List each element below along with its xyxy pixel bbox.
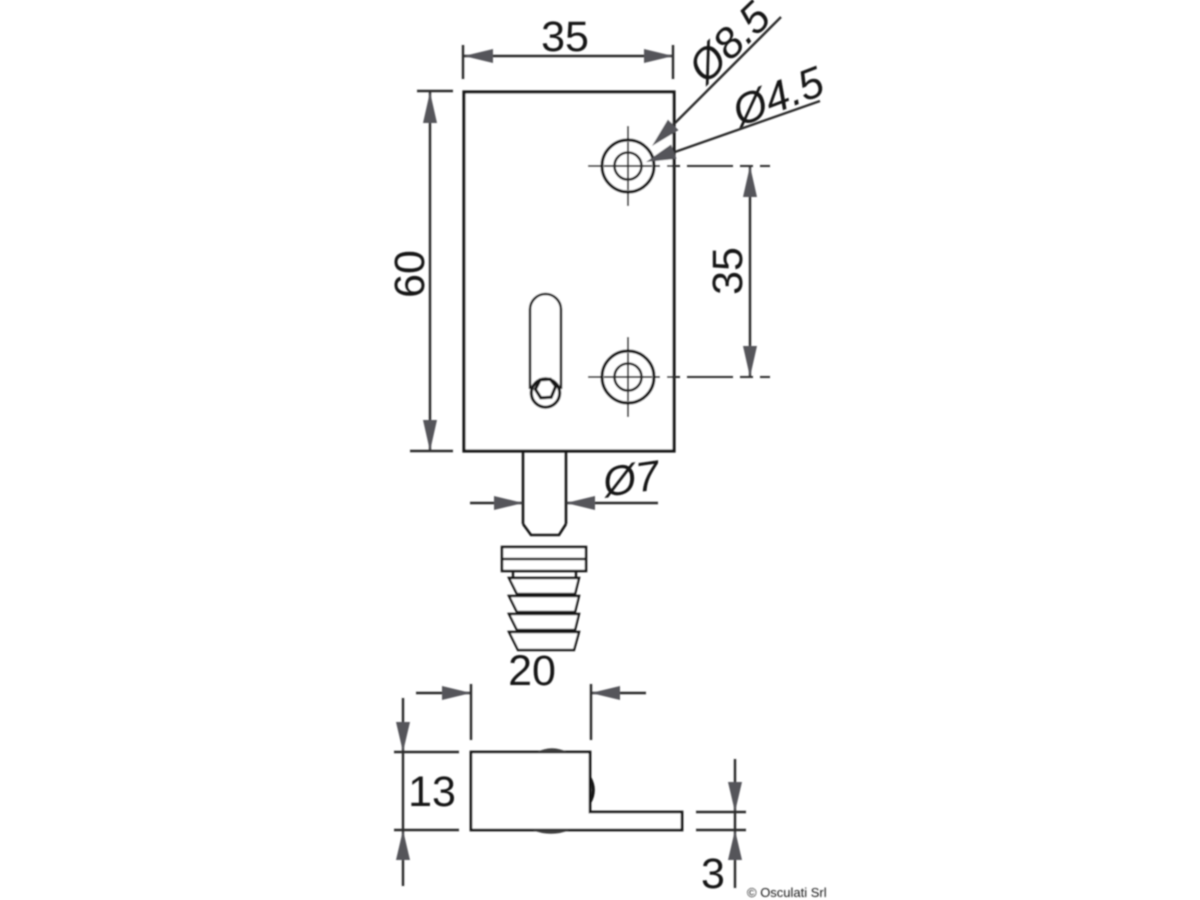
plug: rib 2 xyxy=(509,596,579,612)
plug: rib 1 xyxy=(509,578,579,594)
slot with screw: barrel ring xyxy=(531,379,559,407)
plug: rib 4 xyxy=(509,632,579,650)
svg-text:13: 13 xyxy=(408,768,456,816)
bracket side view: bottom screw tip bump xyxy=(532,830,570,834)
dimension d7: left line xyxy=(470,502,523,504)
dimension 20: left tail line xyxy=(416,692,471,694)
dimension 35 top: right arrowhead xyxy=(644,49,673,63)
dimension 13: top tick xyxy=(394,751,459,753)
plug: neck xyxy=(512,571,514,579)
dimension 3: top arrowhead (points down) xyxy=(728,782,742,812)
bracket side view: top screw tip bump xyxy=(537,748,567,752)
svg-text:© Osculati Srl: © Osculati Srl xyxy=(747,885,827,900)
bracket side view: right edge bump xyxy=(590,778,593,802)
dimension 35 top: extension tick right xyxy=(672,45,674,79)
dimension 60 left: top tick xyxy=(417,90,453,92)
dimension 35 right: top arrowhead xyxy=(743,166,757,197)
plug: rib 3 xyxy=(509,614,579,630)
dimension 20: right tail line xyxy=(591,692,646,694)
dimension 20: left extension line xyxy=(470,684,472,740)
hole H1 top: inner circle (d4.5) xyxy=(615,153,642,180)
stem below plate: chamfered tip xyxy=(523,524,566,535)
dimension 20: right extension line xyxy=(590,684,592,740)
slot with screw: slot outline (open bottom) xyxy=(530,294,561,389)
dimension 3: dimension line xyxy=(734,759,736,888)
hole H2 bottom: inner circle xyxy=(615,364,642,391)
hole H1 top: horizontal centerline xyxy=(588,165,770,167)
dimension 60 left: bottom tick xyxy=(410,450,453,452)
dimension 13: dimension line xyxy=(402,698,404,886)
dimension d7: left arrowhead xyxy=(494,496,523,510)
dimension 35 right: dimension line xyxy=(749,166,751,377)
dimension 60 left: dimension line xyxy=(429,92,431,451)
dimension 13: bottom arrowhead (points up) xyxy=(396,830,410,860)
dimension 60 left: top arrowhead xyxy=(423,92,437,123)
svg-text:20: 20 xyxy=(508,647,556,695)
dimension d7: right arrowhead xyxy=(566,496,595,510)
dimension d7: right line xyxy=(566,502,658,504)
hole H1 top: crosshair xyxy=(604,142,652,190)
hole H2 bottom: outer circle xyxy=(602,351,654,403)
dimension 13: top arrowhead (points down) xyxy=(396,722,410,752)
leader d8.5: arrowhead xyxy=(652,120,679,147)
dimension 3: bottom tick xyxy=(696,829,746,831)
plate front view outline xyxy=(464,92,674,451)
dimension 35 top: dimension line xyxy=(464,55,673,57)
dimension 3: top tick xyxy=(696,811,746,813)
stem below plate: left side xyxy=(522,451,525,524)
svg-text:60: 60 xyxy=(386,250,434,298)
hole H1 top: vertical centerline xyxy=(627,126,629,207)
dimension 35 top: left arrowhead xyxy=(464,49,493,63)
leader d4.5: arrowhead xyxy=(646,145,677,163)
slot with screw: hex socket xyxy=(535,379,555,398)
svg-text:3: 3 xyxy=(701,850,725,898)
dimension 35 right: bottom arrowhead xyxy=(743,346,757,377)
dimension 20: left arrowhead xyxy=(442,686,471,700)
dimension 3: bottom arrowhead (points up) xyxy=(728,830,742,860)
plug: flange xyxy=(502,547,586,571)
dimension 13: bottom tick xyxy=(394,829,459,831)
stem below plate: right side xyxy=(565,451,568,524)
dimension 35 top: extension tick left xyxy=(462,45,464,79)
hole H2 bottom: crosshair xyxy=(604,353,652,401)
svg-text:Ø4.5: Ø4.5 xyxy=(724,57,831,136)
hole H1 top: outer circle (d8.5) xyxy=(602,140,654,192)
dimension 20: right arrowhead xyxy=(591,686,620,700)
bracket side view: L-shaped body xyxy=(471,752,682,830)
hole H2 bottom: horizontal centerline xyxy=(588,376,770,378)
plug: flange divider xyxy=(502,558,586,560)
svg-text:35: 35 xyxy=(541,13,589,61)
svg-text:Ø7: Ø7 xyxy=(598,451,664,506)
hole H2 bottom: vertical centerline xyxy=(627,337,629,418)
leader d4.5: line xyxy=(672,101,820,153)
svg-text:35: 35 xyxy=(704,247,752,295)
dimension 60 left: bottom arrowhead xyxy=(423,420,437,451)
leader d8.5: line xyxy=(672,17,781,126)
